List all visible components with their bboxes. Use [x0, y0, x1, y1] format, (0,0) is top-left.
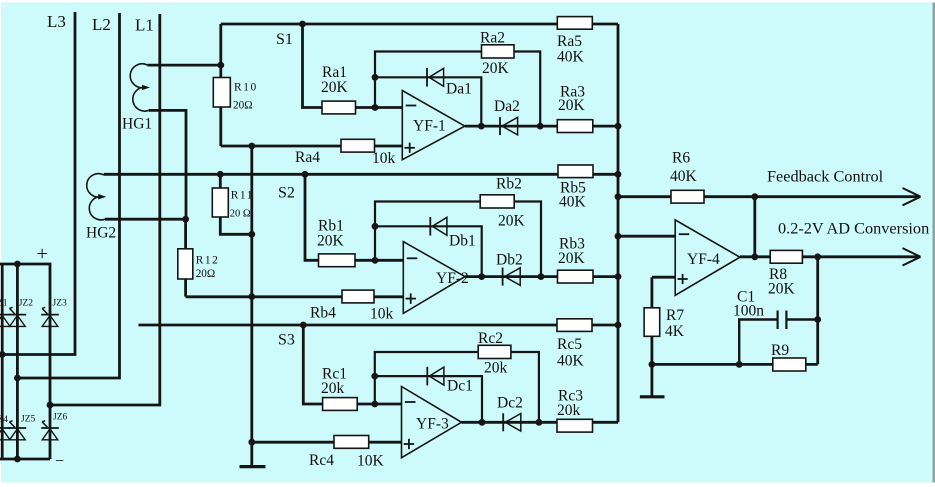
wire YF-4 output row	[740, 255, 920, 258]
node L3 tap JZ1 leg	[0, 351, 6, 358]
wire HG1 bottom drop	[149, 110, 186, 219]
svg-text:JZ3: JZ3	[53, 299, 68, 309]
wire S1 drop to Ra1 row	[303, 24, 403, 108]
wire output row 2	[465, 275, 618, 278]
svg-text:20k: 20k	[321, 380, 345, 397]
node S3 row to bus	[615, 322, 622, 329]
thyristor JZ3	[41, 314, 59, 316]
svg-text:Dc2: Dc2	[497, 395, 523, 412]
inductor HG1 coil	[130, 64, 148, 111]
svg-text:40K: 40K	[670, 168, 698, 185]
node - rail / JZ5 leg	[14, 456, 21, 463]
node Rb1 output junction	[372, 257, 379, 264]
inductor HG2 coil	[87, 174, 105, 220]
svg-text:Da1: Da1	[446, 81, 472, 98]
svg-text:20K: 20K	[768, 281, 796, 298]
svg-text:R6: R6	[672, 150, 690, 167]
wire Db1 branch	[375, 226, 482, 276]
svg-text:20K: 20K	[321, 79, 349, 96]
node Da1 branch tap	[372, 74, 379, 81]
op-amp U2 YF-2	[403, 242, 465, 314]
svg-text:YF-4: YF-4	[687, 251, 720, 268]
node HG1 drop joins HG2 bottom	[182, 216, 189, 223]
arrow AD conversion	[903, 248, 921, 265]
diode Db2	[502, 268, 504, 286]
diode Db1	[429, 217, 431, 236]
node S2 row / R11 top	[217, 171, 224, 178]
wire L3 line	[0, 12, 75, 355]
svg-text:40K: 40K	[557, 49, 585, 66]
node R7 bottom	[649, 361, 656, 368]
node C1 riser	[814, 316, 821, 323]
node bus to R6	[615, 193, 622, 200]
resistor R11	[212, 188, 228, 217]
resistor Ra2	[482, 45, 515, 58]
node L1 tap JZ3 leg	[47, 402, 54, 409]
node Dc1 branch tap	[371, 373, 378, 380]
wire R6 row feedback control	[618, 195, 920, 198]
resistor R8	[770, 250, 802, 263]
node op-amp 3 output	[479, 419, 486, 426]
svg-text:YF-1: YF-1	[413, 118, 446, 135]
ground left	[240, 465, 266, 468]
resistor Rc1	[323, 398, 358, 411]
wire summing bus	[617, 24, 620, 422]
svg-text:Rc2: Rc2	[478, 330, 503, 347]
svg-text:0.2-2V AD Conversion: 0.2-2V AD Conversion	[778, 219, 929, 238]
svg-text:HG2: HG2	[86, 225, 116, 242]
svg-text:20K: 20K	[317, 233, 345, 250]
node HG1 top / R10 top	[217, 62, 224, 69]
node YF-4 output	[751, 253, 758, 260]
diode Dc1	[426, 367, 428, 386]
node S3	[300, 322, 307, 329]
wire R10 chain S1-corner to Ra4 row	[219, 24, 222, 146]
wire Rc4 row	[252, 441, 402, 444]
node + rail / JZ2 leg	[14, 261, 21, 268]
wire L1 line	[50, 14, 160, 405]
svg-text:JZ5: JZ5	[21, 415, 36, 425]
arrow feedback control	[903, 188, 921, 205]
svg-text:L1: L1	[135, 16, 154, 35]
wire L2 line	[17, 13, 119, 378]
wire S2 drop to Rb1 row	[305, 174, 404, 260]
wire YF-4 plus input	[652, 277, 675, 308]
op-amp U3 YF-3	[402, 387, 462, 458]
wire R7 bottom	[651, 336, 654, 364]
svg-text:Rb2: Rb2	[496, 176, 522, 193]
svg-text:Rc5: Rc5	[557, 336, 582, 353]
svg-text:Dc1: Dc1	[447, 378, 473, 395]
wire HG1 top to R10 node	[148, 64, 221, 67]
node Ra3 to bus	[615, 123, 622, 130]
wire bridge + rail	[0, 264, 50, 459]
svg-text:20 Ω: 20 Ω	[230, 209, 251, 220]
wire S1 row	[221, 23, 618, 26]
wire riser output to R6 row	[753, 197, 756, 257]
svg-text:Da2: Da2	[494, 98, 520, 115]
wire bottom row to R9	[652, 363, 818, 366]
svg-text:Ra4: Ra4	[295, 149, 320, 166]
node R6 out / riser	[751, 193, 758, 200]
resistor Ra1	[322, 101, 356, 114]
svg-text:YF-3: YF-3	[416, 416, 449, 433]
wire bus to YF-4 inverting	[618, 235, 675, 238]
resistor Rc3	[557, 419, 593, 432]
diode Dc2	[502, 413, 504, 431]
wire bridge leg JZ2/JZ5	[16, 264, 19, 459]
svg-text:10k: 10k	[372, 150, 396, 167]
wire output row 3	[462, 421, 619, 424]
resistor R10	[213, 78, 230, 108]
svg-text:20K: 20K	[558, 97, 586, 114]
node R11 to main vertical	[248, 231, 255, 238]
node S2	[302, 171, 309, 178]
svg-text:JZ6: JZ6	[53, 413, 68, 423]
resistor Ra3	[557, 120, 593, 133]
ground right	[640, 395, 665, 398]
wire feedback Rc2 loop	[375, 352, 539, 422]
svg-text:L3: L3	[47, 12, 66, 31]
wire bridge - rail	[0, 458, 50, 461]
thyristor JZ2	[9, 314, 27, 316]
node Db1 branch tap	[372, 223, 379, 230]
resistor R7	[644, 308, 660, 337]
node Rc4 row / main vertical	[248, 439, 255, 446]
node bus minus row	[615, 233, 622, 240]
svg-text:20Ω: 20Ω	[196, 268, 216, 280]
node Rc2 feedback join	[536, 419, 543, 426]
svg-text:20K: 20K	[498, 213, 526, 230]
node op-amp 1 output	[478, 123, 485, 130]
svg-text:20K: 20K	[482, 60, 510, 77]
svg-text:Rb4: Rb4	[310, 305, 336, 322]
svg-text:Feedback Control: Feedback Control	[767, 167, 884, 186]
resistor Rc5	[557, 319, 592, 332]
svg-text:20k: 20k	[484, 360, 508, 377]
op-amp U1 YF-1	[402, 91, 465, 160]
svg-text:4K: 4K	[665, 323, 685, 340]
resistor Rc2	[478, 345, 511, 358]
svg-text:20Ω: 20Ω	[233, 100, 253, 112]
wire Rb4 row	[186, 295, 404, 298]
wire feedback Rb2 loop	[375, 202, 541, 277]
resistor Ra5	[557, 17, 592, 30]
resistor Rb1	[319, 254, 356, 267]
wire Ra4 row	[221, 145, 403, 148]
svg-text:Rc4: Rc4	[309, 452, 334, 469]
svg-text:Ra5: Ra5	[557, 33, 582, 50]
node C1 branch tap	[736, 361, 743, 368]
svg-text:JZ4: JZ4	[0, 415, 8, 425]
resistor Rb4	[342, 290, 374, 303]
svg-text:JZ1: JZ1	[0, 299, 8, 309]
wire S3 row	[139, 324, 619, 327]
thyristor JZ1	[0, 314, 11, 316]
svg-text:100n: 100n	[733, 303, 764, 320]
wire bridge leg JZ1/JZ4	[1, 264, 4, 459]
wire Dc1 branch	[375, 376, 482, 422]
node Rb2 feedback join	[538, 273, 545, 280]
wire main vertical to ground	[250, 146, 253, 467]
node R8 out	[814, 253, 821, 260]
diode Da2	[499, 117, 501, 135]
svg-text:20k: 20k	[557, 402, 581, 419]
resistor R9	[773, 358, 806, 371]
node S2 row to bus	[615, 171, 622, 178]
wire R9 riser	[816, 257, 819, 365]
resistor Rb2	[480, 195, 514, 208]
capacitor C1	[776, 311, 778, 330]
wire output row 1	[465, 125, 618, 128]
thyristor JZ6	[41, 427, 59, 429]
node Ra1 output junction	[372, 104, 379, 111]
svg-text:40K: 40K	[557, 353, 585, 370]
svg-text:HG1: HG1	[122, 116, 152, 133]
wire S2 row	[104, 173, 618, 176]
svg-text:10k: 10k	[370, 306, 394, 323]
wire R11 chain	[220, 174, 252, 234]
thyristor JZ4	[0, 427, 11, 429]
diode Da1	[426, 68, 428, 87]
svg-text:JZ2: JZ2	[19, 299, 34, 309]
svg-text:S1: S1	[276, 31, 293, 48]
wire Da1 branch	[375, 77, 481, 126]
thyristor JZ5	[9, 427, 27, 429]
node op-amp 2 output	[478, 273, 485, 280]
wire feedback Ra2 loop	[375, 52, 540, 127]
wire C1 to riser	[786, 318, 817, 320]
svg-text:Ra2: Ra2	[480, 30, 505, 47]
svg-text:+: +	[37, 243, 48, 265]
svg-text:S3: S3	[278, 332, 295, 349]
svg-text:L2: L2	[92, 15, 111, 34]
svg-text:Db1: Db1	[449, 233, 476, 250]
wire C1 branch	[739, 320, 777, 365]
resistor Rc4	[334, 436, 369, 449]
node Rc1 output junction	[371, 401, 378, 408]
node Ra4 row / main vertical	[248, 143, 255, 150]
svg-text:R10: R10	[234, 82, 258, 94]
wire S3 drop to Rc1 row	[303, 325, 402, 404]
node L2 tap JZ2 leg	[14, 375, 21, 382]
wire R12 chain	[184, 219, 187, 296]
svg-text:10K: 10K	[357, 453, 385, 470]
wire HG2 bottom	[105, 218, 186, 221]
resistor R12	[178, 249, 193, 279]
svg-text:S2: S2	[278, 185, 295, 202]
svg-text:R7: R7	[666, 307, 684, 324]
node S1	[299, 21, 306, 28]
svg-text:−: −	[55, 453, 64, 470]
svg-text:R9: R9	[771, 342, 789, 359]
svg-text:20K: 20K	[558, 250, 586, 267]
op-amp U4 YF-4	[675, 220, 740, 295]
node R12 row / main vertical	[248, 293, 255, 300]
svg-text:R12: R12	[196, 255, 220, 267]
svg-text:40K: 40K	[559, 194, 587, 211]
svg-text:YF-2: YF-2	[436, 270, 469, 287]
resistor Rb5	[558, 165, 593, 178]
node Ra2 feedback join	[537, 123, 544, 130]
resistor Rb3	[558, 270, 594, 283]
resistor R6	[671, 190, 704, 203]
resistor Ra4	[341, 139, 375, 152]
wire ground drop right	[651, 364, 654, 396]
node Rb3 to bus	[615, 273, 622, 280]
svg-text:Db2: Db2	[496, 252, 523, 269]
